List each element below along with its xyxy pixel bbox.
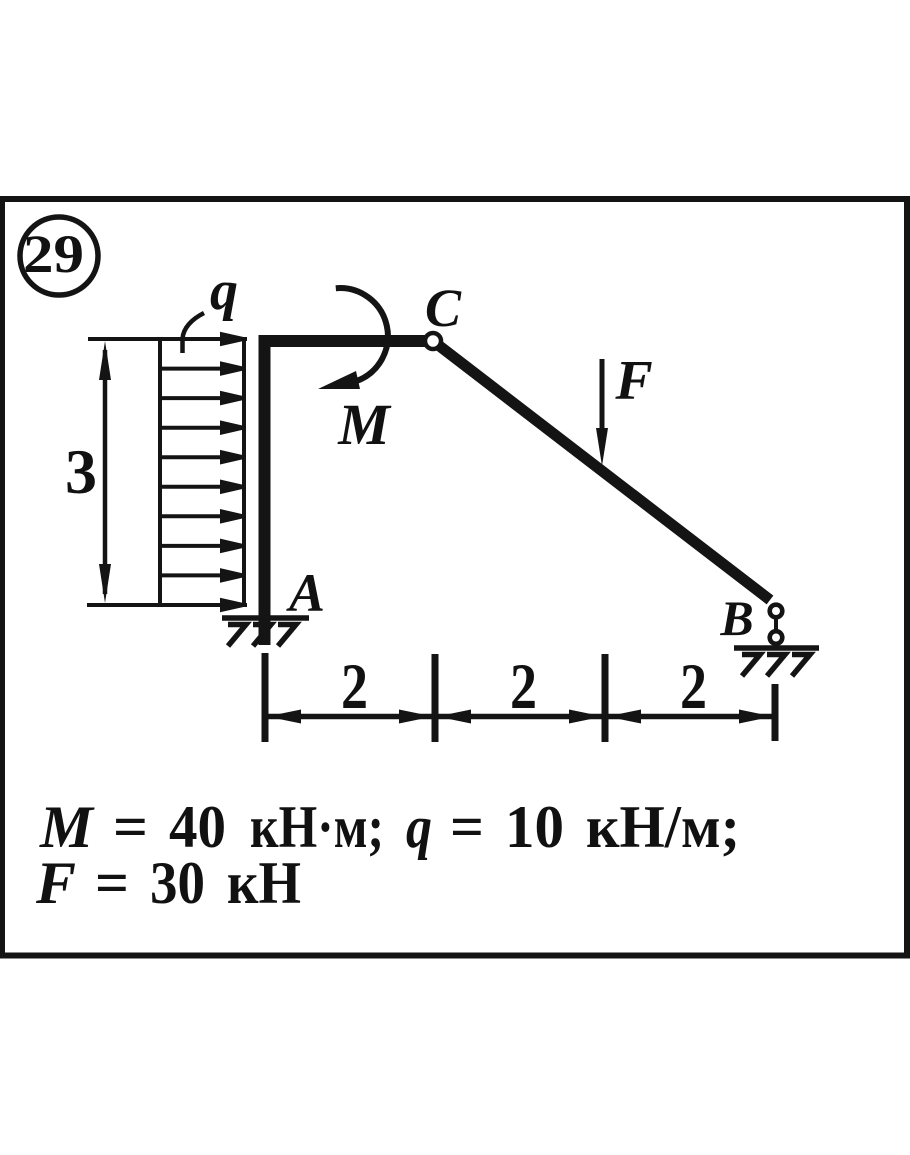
dimension extension tick under C bbox=[432, 654, 439, 742]
dimension 3 extension line bottom bbox=[87, 603, 247, 607]
svg-text:F: F bbox=[614, 350, 652, 412]
force F arrow bbox=[596, 359, 608, 466]
frame member (column A + beam to C) bbox=[265, 341, 434, 645]
svg-text:2: 2 bbox=[510, 651, 537, 723]
inclined member C to B bbox=[433, 341, 770, 600]
moment M arrowhead bbox=[318, 371, 360, 389]
svg-text:2: 2 bbox=[341, 651, 368, 723]
dimension extension tick at A bbox=[262, 653, 269, 742]
svg-text:q: q bbox=[210, 260, 238, 322]
distributed load q arrows bbox=[161, 334, 243, 610]
distributed load q left edge bbox=[158, 339, 162, 605]
svg-text:29: 29 bbox=[23, 224, 84, 284]
distributed load q right edge bbox=[242, 339, 246, 605]
svg-text:3: 3 bbox=[65, 436, 97, 507]
svg-text:A: A bbox=[286, 563, 325, 623]
svg-text:M: M bbox=[337, 392, 392, 457]
support A ground line bbox=[222, 615, 309, 621]
dimension extension tick at B bbox=[772, 684, 779, 741]
support B roller link bbox=[774, 618, 778, 631]
support B roller pin bottom bbox=[770, 631, 783, 644]
moment M arc bbox=[336, 288, 388, 381]
pin C bbox=[425, 333, 441, 349]
support B roller pin top bbox=[770, 605, 783, 618]
support A hatching bbox=[228, 625, 296, 647]
dimension 3 extension line top bbox=[88, 337, 247, 341]
support B ground line bbox=[734, 645, 819, 651]
dimension 3 line bbox=[99, 341, 111, 603]
support B hatching bbox=[742, 655, 810, 677]
svg-text:B: B bbox=[719, 590, 753, 646]
svg-text:C: C bbox=[425, 278, 462, 338]
leader line for q bbox=[183, 313, 205, 353]
svg-text:2: 2 bbox=[680, 651, 707, 723]
svg-text:M = 40 кН·м; q: M = 40 кН·м; q = 10 кН/м; bbox=[39, 794, 740, 860]
bottom dimension line bbox=[265, 714, 775, 720]
problem number badge 29 bbox=[20, 217, 98, 295]
svg-text:F = 30 кН: F = 30 кН bbox=[35, 850, 301, 916]
dimension arrowheads bbox=[267, 710, 773, 724]
dimension extension tick under F bbox=[602, 654, 609, 742]
